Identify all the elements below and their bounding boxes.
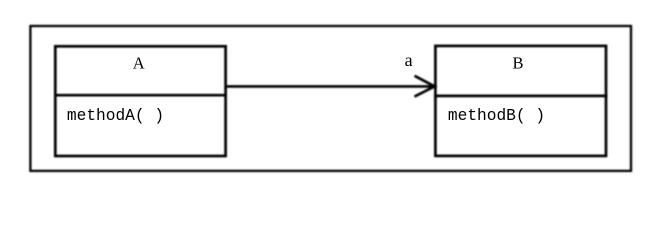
wire association A to B [227,85,434,88]
svg-text:methodA( ): methodA( ) [67,107,164,125]
svg-text:B: B [512,53,523,72]
arrowhead [416,76,435,96]
outer frame [30,26,631,171]
svg-text:a: a [405,50,413,70]
class box B [435,46,606,156]
divider B [434,95,608,98]
svg-text:A: A [133,53,145,72]
svg-text:methodB( ): methodB( ) [448,107,545,125]
class box A [55,46,225,156]
divider A [54,94,227,97]
